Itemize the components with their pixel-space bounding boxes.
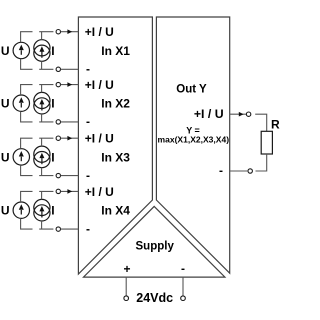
wire into - terminal (input 4) (61, 228, 79, 230)
wire top bracket of U source (input 2) (21, 85, 33, 95)
terminal + (supply) (124, 296, 129, 301)
svg-text:U: U (1, 44, 10, 58)
svg-text:In X2: In X2 (101, 97, 130, 111)
svg-text:I: I (51, 44, 54, 58)
svg-text:24Vdc: 24Vdc (136, 291, 173, 305)
svg-text:I: I (51, 204, 54, 218)
svg-text:In X3: In X3 (101, 150, 130, 164)
voltage source U (input 1) (13, 42, 29, 58)
wire from output terminal to resistor top (255, 114, 267, 131)
svg-text:-: - (86, 168, 90, 182)
svg-text:-: - (86, 62, 90, 76)
wire from resistor bottom to output - terminal (256, 154, 267, 171)
wire into - terminal (input 1) (61, 68, 79, 70)
svg-text:-: - (86, 222, 90, 236)
svg-text:+I / U: +I / U (85, 132, 114, 146)
svg-text:-: - (219, 163, 223, 177)
voltage source U (input 4) (13, 202, 29, 218)
terminal - (input 4) (56, 227, 60, 231)
wire with arrow into +I/U terminal (input 4) (61, 189, 79, 194)
svg-text:Y =: Y = (186, 125, 200, 135)
resistor R (261, 131, 272, 154)
voltage source U (input 3) (13, 149, 29, 165)
terminal - (input 2) (56, 120, 60, 124)
svg-text:Out Y: Out Y (176, 84, 207, 96)
svg-text:+I / U: +I / U (85, 78, 114, 92)
svg-text:+I / U: +I / U (85, 185, 114, 199)
current source I (input 2) (34, 92, 50, 114)
wire top bracket of I source (input 2) (39, 85, 53, 93)
svg-text:R: R (271, 118, 280, 132)
terminal - (input 1) (56, 67, 60, 71)
wire bottom bracket of U source (input 4) (21, 218, 33, 229)
wire with arrow from output +I/U (230, 112, 247, 117)
terminal +I/U (input 3) (56, 136, 60, 140)
wire with arrow into +I/U terminal (input 3) (61, 136, 79, 141)
svg-text:+I / U: +I / U (85, 25, 114, 39)
wire top bracket of U source (input 4) (21, 191, 33, 202)
input block outline (78, 17, 152, 274)
current source I (input 4) (34, 199, 50, 221)
terminal - (input 3) (56, 173, 60, 177)
wire bottom bracket of I source (input 2) (39, 114, 53, 122)
terminal - (output) (248, 169, 252, 173)
wire bottom bracket of I source (input 4) (39, 221, 53, 229)
svg-text:-: - (181, 262, 185, 276)
svg-text:U: U (1, 97, 10, 111)
terminal +I/U (input 2) (56, 82, 60, 86)
wire bottom bracket of I source (input 3) (39, 168, 53, 176)
svg-text:-: - (86, 115, 90, 129)
wire top bracket of I source (input 4) (39, 191, 53, 199)
terminal - (supply) (181, 296, 186, 301)
svg-text:Supply: Supply (136, 240, 175, 252)
svg-text:+I / U: +I / U (194, 107, 224, 121)
wire bottom bracket of U source (input 3) (21, 165, 33, 176)
svg-text:In X1: In X1 (101, 44, 130, 58)
voltage source U (input 2) (13, 95, 29, 111)
output block outline (156, 17, 229, 273)
supply block outline (84, 206, 225, 277)
wire top bracket of U source (input 3) (21, 138, 33, 149)
svg-text:I: I (51, 97, 54, 111)
wire bottom bracket of U source (input 2) (21, 111, 33, 122)
current source I (input 1) (34, 40, 50, 62)
svg-text:max(X1,X2,X3,X4): max(X1,X2,X3,X4) (158, 136, 230, 145)
svg-text:U: U (1, 150, 10, 164)
svg-text:In X4: In X4 (101, 204, 130, 218)
wire top bracket of I source (input 1) (39, 32, 53, 40)
current source I (input 3) (34, 146, 50, 168)
wire supply - stem (182, 278, 184, 296)
svg-text:+: + (123, 262, 130, 276)
wire with arrow into +I/U terminal (input 2) (61, 82, 79, 87)
terminal +I/U (input 1) (56, 30, 60, 34)
wire top bracket of I source (input 3) (39, 138, 53, 146)
terminal +I/U (output) (246, 112, 250, 116)
wire supply + stem (125, 278, 127, 296)
svg-text:U: U (1, 204, 10, 218)
terminal +I/U (input 4) (56, 189, 60, 193)
wire top bracket of U source (input 1) (21, 32, 33, 43)
wire bottom bracket of I source (input 1) (39, 61, 53, 69)
svg-text:I: I (51, 150, 54, 164)
wire into - terminal (input 3) (61, 175, 79, 177)
wire into - terminal (input 2) (61, 121, 79, 123)
wire into output - of block (230, 170, 248, 172)
wire with arrow into +I/U terminal (input 1) (61, 29, 79, 34)
wire bottom bracket of U source (input 1) (21, 59, 33, 70)
